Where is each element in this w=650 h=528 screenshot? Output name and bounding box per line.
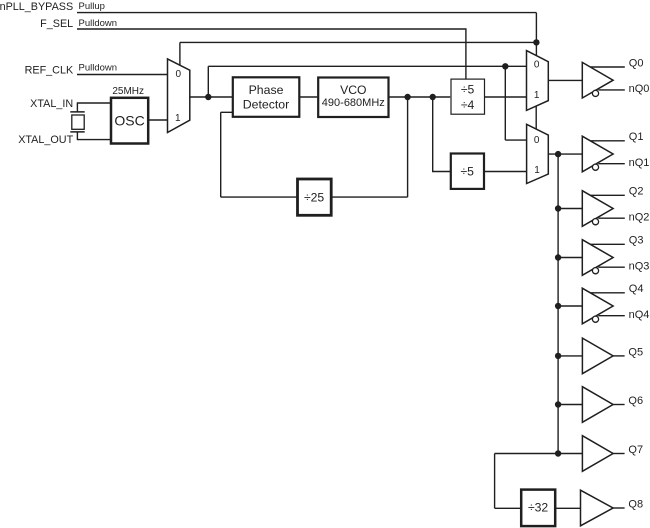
svg-text:REF_CLK: REF_CLK bbox=[25, 64, 74, 76]
svg-text:Q2: Q2 bbox=[629, 186, 644, 198]
svg-text:Pulldown: Pulldown bbox=[79, 18, 118, 29]
svg-text:nQ4: nQ4 bbox=[629, 309, 650, 321]
svg-text:÷5: ÷5 bbox=[461, 82, 475, 96]
svg-text:VCO: VCO bbox=[340, 83, 366, 97]
svg-text:Phase: Phase bbox=[249, 83, 284, 97]
svg-text:1: 1 bbox=[534, 165, 540, 176]
svg-text:Q4: Q4 bbox=[629, 283, 644, 295]
svg-text:F_SEL: F_SEL bbox=[40, 18, 73, 30]
svg-text:nQ1: nQ1 bbox=[629, 157, 650, 169]
svg-text:OSC: OSC bbox=[114, 113, 144, 129]
svg-text:Q3: Q3 bbox=[629, 235, 644, 247]
svg-text:25MHz: 25MHz bbox=[112, 86, 144, 97]
svg-text:Q5: Q5 bbox=[628, 347, 643, 359]
svg-text:Pulldown: Pulldown bbox=[79, 62, 118, 73]
svg-text:Q0: Q0 bbox=[629, 57, 644, 69]
svg-text:1: 1 bbox=[175, 113, 181, 124]
svg-text:÷4: ÷4 bbox=[461, 98, 475, 112]
svg-text:Q8: Q8 bbox=[628, 499, 643, 511]
svg-text:XTAL_OUT: XTAL_OUT bbox=[18, 134, 73, 146]
svg-text:nQ0: nQ0 bbox=[629, 83, 650, 95]
svg-text:0: 0 bbox=[534, 60, 540, 71]
svg-text:0: 0 bbox=[176, 69, 182, 80]
svg-text:Pullup: Pullup bbox=[79, 1, 105, 12]
svg-text:Q6: Q6 bbox=[628, 395, 643, 407]
svg-text:XTAL_IN: XTAL_IN bbox=[30, 98, 73, 110]
svg-text:490-680MHz: 490-680MHz bbox=[322, 97, 385, 109]
svg-text:nQ2: nQ2 bbox=[629, 211, 650, 223]
svg-text:Q7: Q7 bbox=[628, 444, 643, 456]
svg-text:÷25: ÷25 bbox=[304, 191, 324, 205]
svg-text:1: 1 bbox=[534, 90, 540, 101]
svg-text:÷32: ÷32 bbox=[528, 501, 548, 515]
svg-text:Q1: Q1 bbox=[629, 131, 644, 143]
svg-text:÷5: ÷5 bbox=[460, 164, 474, 178]
svg-text:nPLL_BYPASS: nPLL_BYPASS bbox=[0, 1, 73, 13]
svg-text:Detector: Detector bbox=[243, 98, 289, 112]
svg-text:0: 0 bbox=[534, 135, 540, 146]
svg-text:nQ3: nQ3 bbox=[629, 260, 650, 272]
